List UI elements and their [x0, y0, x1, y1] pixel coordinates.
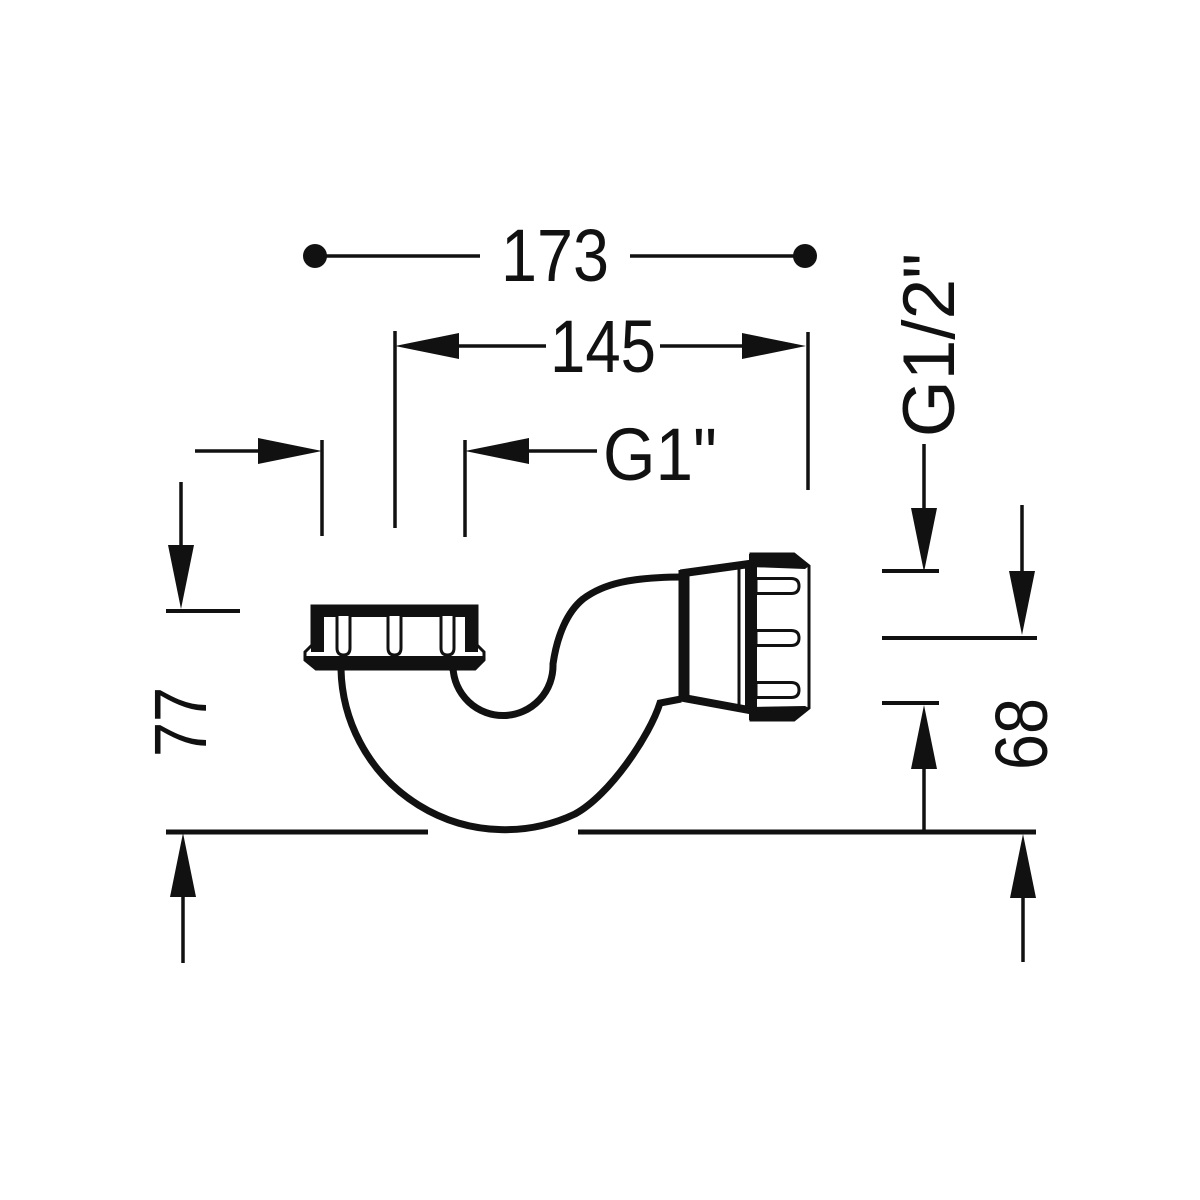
ground line: [166, 830, 1036, 835]
cone left edge thick: [679, 570, 690, 701]
right nut top band: [751, 554, 809, 569]
down arrow at x=924: [922, 444, 926, 515]
up arrow at x=924: [911, 705, 937, 769]
right nut outline: [751, 554, 809, 720]
dim 145 line: [457, 344, 744, 348]
dim 173 line: [315, 254, 805, 258]
right nut left bar: [749, 554, 757, 720]
svg-text:77: 77: [139, 687, 222, 757]
G1 arrow pointing left at x=465: [465, 438, 529, 464]
tick 77 top: [166, 609, 240, 613]
down arrow at x=1022: [1020, 505, 1024, 578]
tick right top: [882, 569, 939, 573]
left nut right bar: [465, 605, 478, 652]
svg-text:173: 173: [501, 214, 609, 297]
left nut slot 3: [441, 616, 454, 655]
bottom-right up arrow: [1021, 894, 1025, 962]
dim 173 right dot: [793, 244, 817, 268]
left down arrow (77 top): [179, 482, 183, 552]
G1 dim: left line and right-pointing arrow: [195, 449, 262, 453]
trap outer curve: [341, 669, 681, 830]
axis line right: [882, 636, 1037, 640]
G1 dim line right: [527, 449, 597, 453]
dim 173 left dot: [303, 244, 327, 268]
extension line right (145/173): [806, 332, 810, 490]
svg-text:G1/2": G1/2": [889, 253, 970, 437]
svg-text:68: 68: [980, 698, 1063, 770]
trap inner U and S-curve: [453, 577, 684, 716]
svg-text:145: 145: [550, 305, 656, 388]
extension line x=322: [320, 440, 324, 536]
left nut slot 2: [388, 616, 401, 655]
right nut bottom band: [751, 706, 809, 720]
right nut slot 2: [756, 631, 799, 646]
extension line 145 left: [393, 331, 397, 528]
tick right bottom: [882, 701, 939, 705]
bottom-left up arrow: [181, 893, 185, 963]
left nut left bar: [311, 605, 324, 652]
arrow right at x=322: [258, 438, 322, 464]
dim 145 left arrow: [395, 333, 459, 359]
svg-text:G1": G1": [603, 413, 717, 496]
extension line x=465: [463, 440, 467, 537]
dim 145 right arrow: [742, 333, 806, 359]
left nut slot 1: [337, 616, 350, 655]
left nut outline: [305, 606, 484, 669]
right nut slot 3: [756, 683, 799, 698]
left nut top band: [311, 605, 478, 617]
cone (outlet taper): [684, 564, 749, 710]
right nut slot 1: [756, 579, 799, 594]
cone inner line: [738, 567, 741, 707]
left nut bottom band: [305, 656, 484, 669]
